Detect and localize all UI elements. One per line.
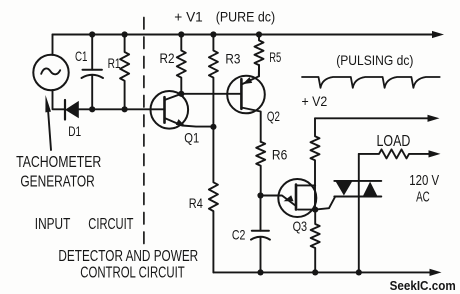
svg-text:(PULSING dc): (PULSING dc) bbox=[336, 52, 413, 68]
wire +V2 feed bbox=[315, 117, 429, 119]
svg-text:INPUT: INPUT bbox=[35, 216, 71, 233]
node Q1 collector junction bbox=[178, 91, 184, 97]
diode D1 bbox=[64, 100, 66, 120]
resistor (V2 to Q3 collector) bbox=[311, 118, 320, 209]
transistor Q2 bbox=[227, 76, 265, 114]
svg-text:120 V: 120 V bbox=[409, 173, 439, 189]
svg-text:R2: R2 bbox=[160, 50, 175, 66]
wire base row to Q1 bbox=[92, 108, 164, 110]
svg-text:R6: R6 bbox=[272, 146, 288, 162]
node Q1 emitter junction bbox=[210, 124, 216, 130]
svg-text:+ V1: + V1 bbox=[174, 9, 203, 25]
svg-text:GENERATOR: GENERATOR bbox=[20, 174, 94, 191]
svg-text:CONTROL CIRCUIT: CONTROL CIRCUIT bbox=[80, 265, 185, 282]
capacitor C1 bbox=[91, 35, 93, 70]
node V2 arrowhead bbox=[428, 115, 440, 122]
wire generator top lead bbox=[52, 35, 54, 55]
transistor Q1 bbox=[151, 91, 189, 129]
svg-text:C2: C2 bbox=[232, 227, 246, 243]
node bottom-left row dots bbox=[89, 106, 95, 112]
svg-text:+ V2: + V2 bbox=[302, 93, 328, 109]
svg-text:(PURE dc): (PURE dc) bbox=[216, 9, 276, 25]
svg-text:CIRCUIT: CIRCUIT bbox=[88, 216, 133, 233]
svg-text:DETECTOR AND POWER: DETECTOR AND POWER bbox=[58, 248, 198, 265]
resistor R6 bbox=[256, 142, 265, 196]
svg-text:TACHOMETER: TACHOMETER bbox=[16, 154, 101, 171]
annotation arrow to generator bbox=[48, 112, 51, 150]
resistor R1 bbox=[120, 35, 129, 110]
node LOAD arrowhead bbox=[429, 150, 441, 157]
wire gate to triac bbox=[315, 197, 335, 210]
wire LOAD line bbox=[359, 149, 430, 158]
svg-text:Q3: Q3 bbox=[293, 218, 308, 234]
wire bottom rail bbox=[213, 271, 431, 273]
node Q3 lower junction bbox=[312, 207, 318, 213]
divider dashed line bbox=[143, 18, 145, 247]
svg-text:R4: R4 bbox=[189, 195, 203, 211]
capacitor C2 bbox=[260, 196, 262, 231]
triac bbox=[334, 180, 381, 182]
svg-text:R3: R3 bbox=[225, 51, 240, 67]
svg-text:R5: R5 bbox=[269, 49, 281, 65]
node bottom rail arrowhead bbox=[430, 269, 442, 276]
node rail junction dots bbox=[89, 31, 95, 37]
wire generator bottom lead bbox=[53, 90, 66, 109]
resistor R2 bbox=[177, 35, 186, 94]
node V1 rail arrowhead bbox=[432, 31, 444, 38]
node R6/C2/Q3 junction bbox=[257, 192, 263, 198]
wire +V1 top rail bbox=[53, 34, 435, 36]
resistor R5 bbox=[255, 35, 264, 77]
svg-text:Q2: Q2 bbox=[267, 108, 280, 124]
transistor Q3 bbox=[278, 179, 316, 217]
resistor R3 bbox=[209, 35, 218, 127]
svg-text:R1: R1 bbox=[108, 55, 121, 71]
resistor (Q3 to bottom rail) bbox=[311, 210, 320, 273]
waveform pulsing dc bbox=[302, 77, 440, 88]
svg-text:SeekIC.com: SeekIC.com bbox=[390, 279, 456, 293]
wire Q1 collector to Q2 base bbox=[181, 93, 241, 95]
svg-text:C1: C1 bbox=[75, 48, 88, 64]
tachometer generator bbox=[33, 55, 68, 90]
resistor R4 bbox=[209, 127, 218, 273]
node bottom rail dots bbox=[257, 269, 263, 275]
svg-text:AC: AC bbox=[416, 190, 430, 206]
svg-text:LOAD: LOAD bbox=[377, 133, 411, 150]
svg-text:D1: D1 bbox=[68, 123, 81, 139]
svg-text:Q1: Q1 bbox=[184, 130, 199, 146]
